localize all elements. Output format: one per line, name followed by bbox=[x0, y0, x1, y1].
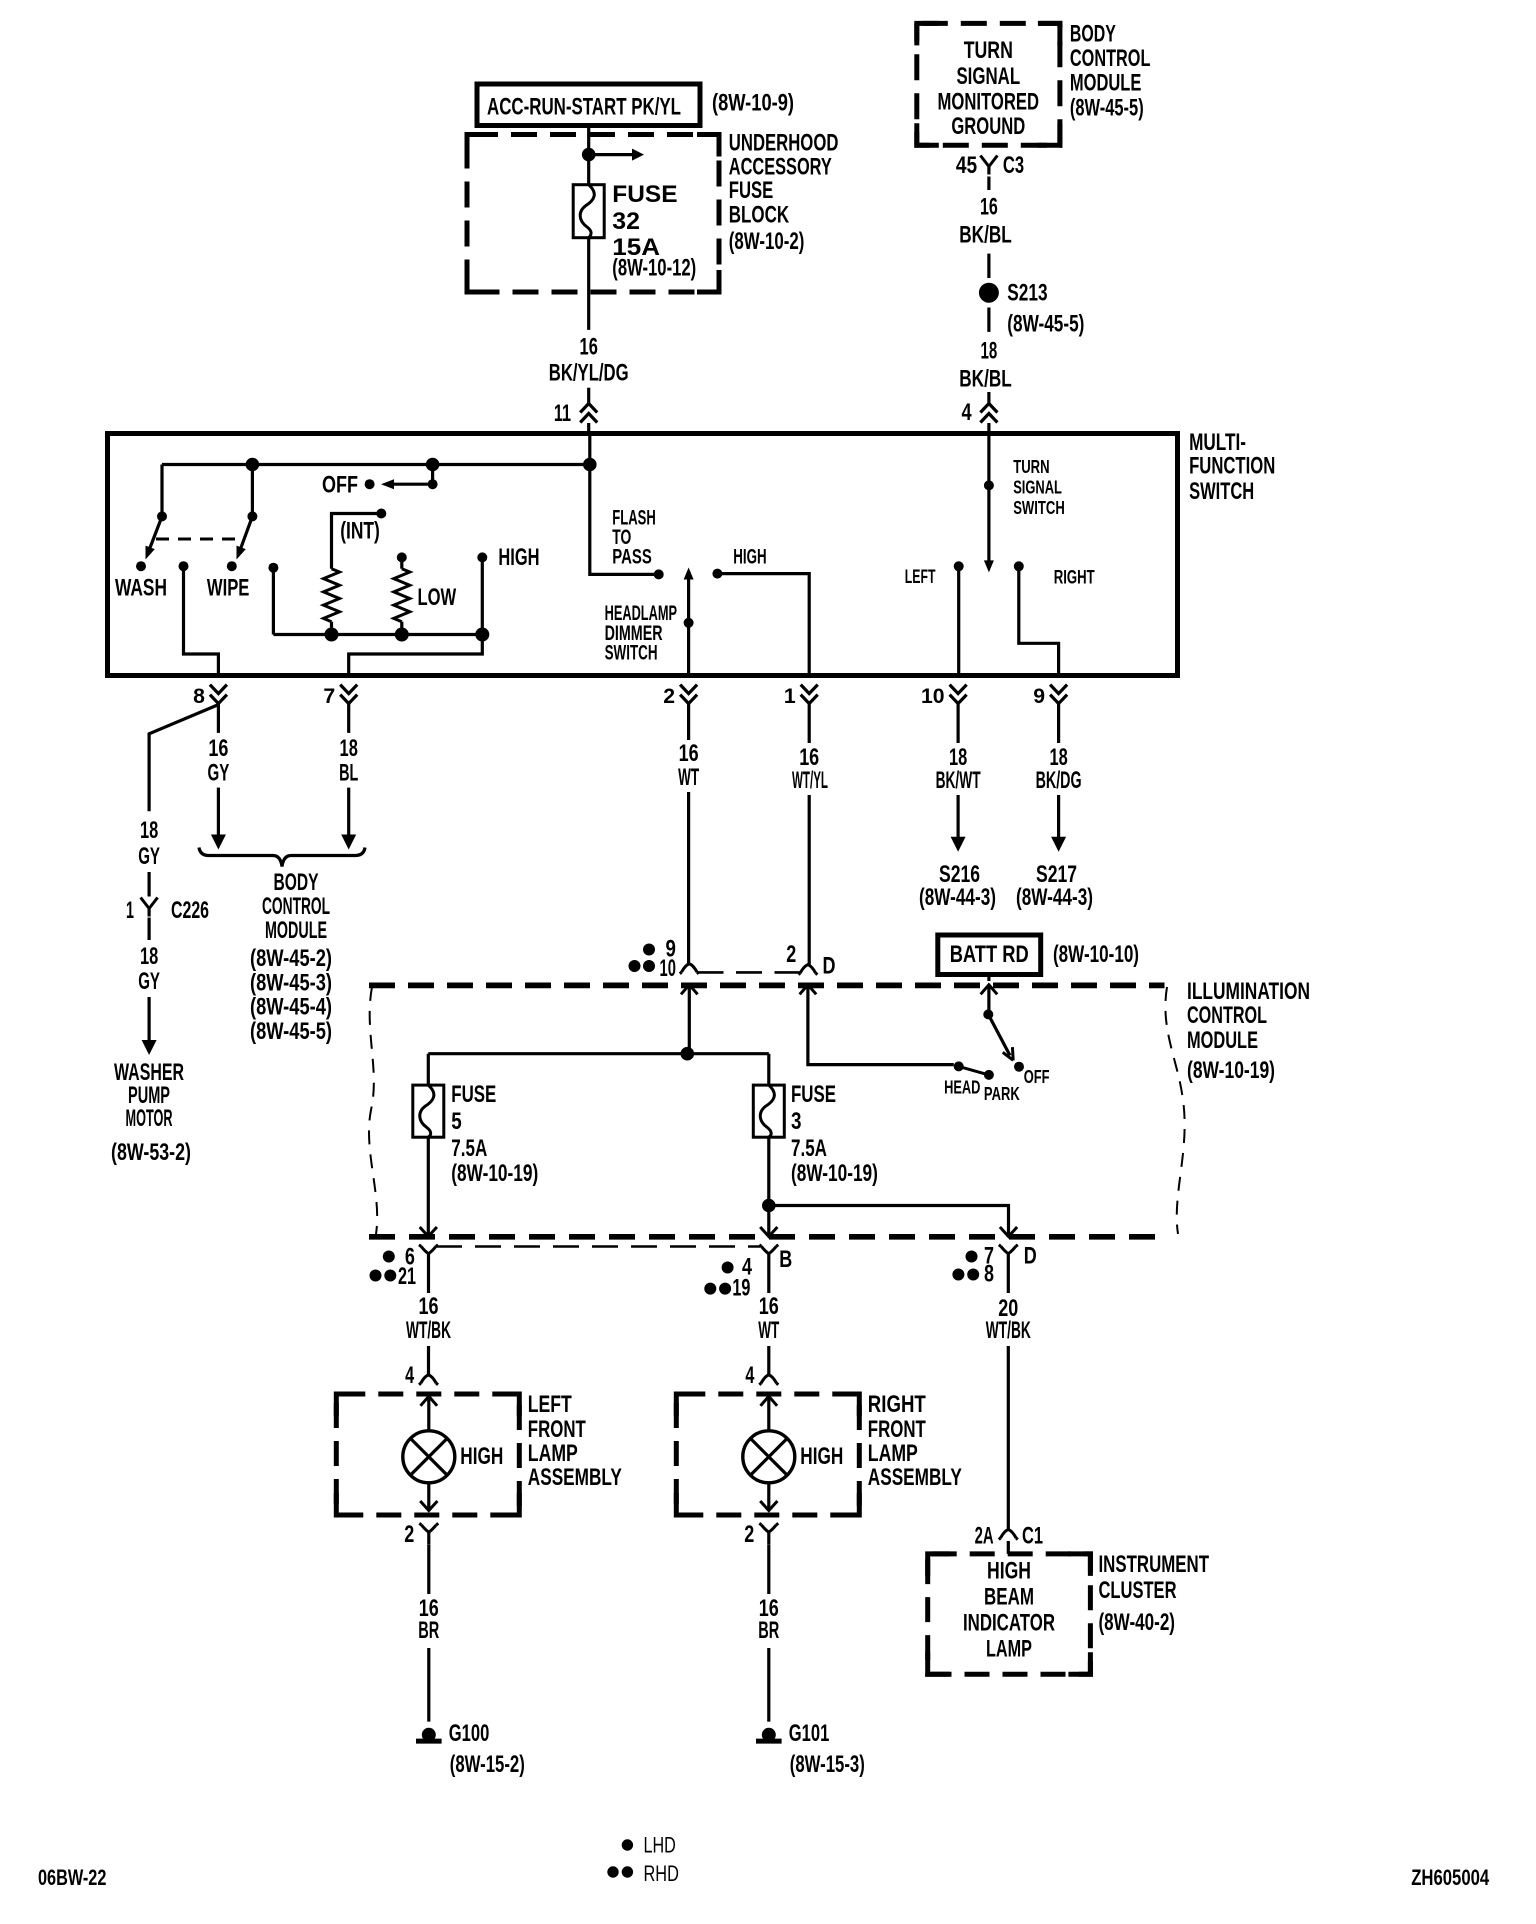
svg-text:11: 11 bbox=[554, 400, 571, 427]
svg-text:(8W-10-19): (8W-10-19) bbox=[451, 1160, 538, 1187]
svg-text:BK/WT: BK/WT bbox=[936, 767, 981, 794]
svg-text:RIGHT: RIGHT bbox=[1054, 567, 1095, 589]
svg-text:HIGH: HIGH bbox=[460, 1443, 503, 1470]
svg-text:D: D bbox=[1024, 1243, 1037, 1270]
svg-text:HIGH: HIGH bbox=[987, 1557, 1031, 1584]
svg-text:(8W-45-5): (8W-45-5) bbox=[250, 1018, 332, 1045]
svg-text:C1: C1 bbox=[1022, 1523, 1043, 1550]
svg-text:S213: S213 bbox=[1007, 280, 1047, 307]
svg-text:WASH: WASH bbox=[115, 575, 167, 602]
svg-text:(8W-45-5): (8W-45-5) bbox=[1007, 311, 1084, 338]
svg-text:2: 2 bbox=[404, 1521, 414, 1548]
svg-text:LOW: LOW bbox=[418, 584, 457, 611]
svg-text:OFF: OFF bbox=[322, 472, 358, 499]
svg-text:ASSEMBLY: ASSEMBLY bbox=[868, 1464, 962, 1491]
svg-text:CONTROL: CONTROL bbox=[262, 893, 330, 920]
svg-text:LAMP: LAMP bbox=[868, 1440, 918, 1467]
svg-text:21: 21 bbox=[398, 1263, 416, 1290]
svg-text:HEAD: HEAD bbox=[944, 1076, 980, 1097]
svg-text:FUNCTION: FUNCTION bbox=[1189, 453, 1275, 480]
svg-text:(8W-40-2): (8W-40-2) bbox=[1099, 1609, 1176, 1636]
svg-text:HIGH: HIGH bbox=[800, 1443, 843, 1470]
svg-text:2: 2 bbox=[663, 685, 675, 708]
svg-text:(8W-15-2): (8W-15-2) bbox=[450, 1751, 525, 1778]
svg-text:BODY: BODY bbox=[274, 869, 319, 896]
svg-text:RHD: RHD bbox=[644, 1861, 679, 1886]
svg-text:8: 8 bbox=[193, 685, 205, 708]
svg-text:GROUND: GROUND bbox=[951, 113, 1025, 140]
svg-text:BL: BL bbox=[339, 760, 358, 787]
svg-text:(8W-15-3): (8W-15-3) bbox=[790, 1751, 865, 1778]
svg-text:BODY: BODY bbox=[1070, 20, 1116, 47]
svg-text:C3: C3 bbox=[1003, 152, 1024, 179]
svg-text:WT: WT bbox=[678, 764, 699, 791]
svg-text:ASSEMBLY: ASSEMBLY bbox=[528, 1464, 622, 1491]
svg-text:7.5A: 7.5A bbox=[451, 1135, 487, 1162]
svg-text:GY: GY bbox=[208, 760, 230, 787]
svg-text:SWITCH: SWITCH bbox=[1013, 498, 1065, 519]
svg-text:BATT RD: BATT RD bbox=[950, 941, 1029, 968]
svg-text:16: 16 bbox=[980, 194, 998, 221]
svg-text:SWITCH: SWITCH bbox=[1189, 478, 1254, 505]
svg-text:LHD: LHD bbox=[644, 1833, 676, 1858]
svg-text:2: 2 bbox=[744, 1521, 754, 1548]
svg-text:WT/BK: WT/BK bbox=[986, 1317, 1031, 1344]
svg-text:(8W-44-3): (8W-44-3) bbox=[1016, 884, 1093, 911]
svg-text:WIPE: WIPE bbox=[207, 575, 250, 602]
svg-text:LAMP: LAMP bbox=[528, 1440, 578, 1467]
svg-text:HIGH: HIGH bbox=[733, 545, 766, 568]
svg-text:MONITORED: MONITORED bbox=[938, 89, 1040, 116]
svg-text:WT/YL: WT/YL bbox=[792, 767, 828, 794]
svg-text:(8W-45-4): (8W-45-4) bbox=[250, 994, 332, 1021]
svg-text:BEAM: BEAM bbox=[984, 1583, 1034, 1610]
svg-text:(8W-10-12): (8W-10-12) bbox=[612, 255, 696, 282]
svg-text:FRONT: FRONT bbox=[528, 1416, 586, 1443]
svg-text:9: 9 bbox=[1033, 685, 1045, 708]
svg-text:D: D bbox=[823, 952, 836, 979]
svg-text:RIGHT: RIGHT bbox=[868, 1391, 926, 1418]
svg-text:4: 4 bbox=[962, 399, 973, 426]
svg-text:(8W-10-9): (8W-10-9) bbox=[712, 90, 794, 117]
svg-text:OFF: OFF bbox=[1024, 1066, 1050, 1087]
svg-text:BK/YL/DG: BK/YL/DG bbox=[549, 359, 629, 386]
svg-text:UNDERHOOD: UNDERHOOD bbox=[729, 130, 839, 157]
svg-text:32: 32 bbox=[612, 208, 640, 235]
svg-text:MODULE: MODULE bbox=[1187, 1027, 1258, 1054]
svg-text:18: 18 bbox=[340, 735, 358, 762]
svg-text:BR: BR bbox=[758, 1617, 779, 1644]
svg-text:FUSE: FUSE bbox=[451, 1081, 496, 1108]
svg-text:FUSE: FUSE bbox=[729, 177, 774, 204]
svg-text:SWITCH: SWITCH bbox=[605, 642, 658, 665]
svg-text:LEFT: LEFT bbox=[905, 566, 936, 588]
svg-text:(8W-44-3): (8W-44-3) bbox=[919, 884, 996, 911]
svg-text:GY: GY bbox=[138, 968, 160, 995]
svg-text:18: 18 bbox=[140, 817, 158, 844]
svg-text:LAMP: LAMP bbox=[986, 1635, 1032, 1662]
svg-text:16: 16 bbox=[208, 735, 228, 762]
svg-text:18: 18 bbox=[140, 943, 158, 970]
svg-text:G101: G101 bbox=[789, 1720, 830, 1747]
svg-text:INDICATOR: INDICATOR bbox=[963, 1609, 1055, 1636]
svg-text:(8W-10-19): (8W-10-19) bbox=[1187, 1057, 1275, 1084]
svg-text:1: 1 bbox=[126, 897, 134, 924]
svg-text:8: 8 bbox=[984, 1261, 994, 1288]
svg-text:ACC-RUN-START PK/YL: ACC-RUN-START PK/YL bbox=[487, 94, 681, 121]
svg-text:4: 4 bbox=[405, 1362, 415, 1389]
svg-text:TURN: TURN bbox=[964, 37, 1013, 64]
svg-text:(8W-45-3): (8W-45-3) bbox=[250, 969, 332, 996]
svg-text:2: 2 bbox=[786, 941, 796, 968]
svg-text:SIGNAL: SIGNAL bbox=[956, 63, 1020, 90]
svg-text:MODULE: MODULE bbox=[1070, 70, 1142, 97]
svg-text:(8W-45-5): (8W-45-5) bbox=[1070, 95, 1144, 122]
svg-text:(8W-10-19): (8W-10-19) bbox=[791, 1160, 878, 1187]
svg-text:16: 16 bbox=[419, 1293, 439, 1320]
svg-text:LEFT: LEFT bbox=[528, 1391, 572, 1418]
svg-text:CLUSTER: CLUSTER bbox=[1099, 1577, 1177, 1604]
svg-text:(INT): (INT) bbox=[340, 518, 380, 545]
svg-text:5: 5 bbox=[451, 1108, 462, 1135]
svg-text:FRONT: FRONT bbox=[868, 1416, 926, 1443]
svg-text:7: 7 bbox=[323, 685, 335, 708]
svg-text:16: 16 bbox=[580, 333, 598, 360]
svg-text:BK/BL: BK/BL bbox=[959, 366, 1012, 393]
svg-text:CONTROL: CONTROL bbox=[1070, 45, 1151, 72]
svg-text:CONTROL: CONTROL bbox=[1187, 1002, 1267, 1029]
svg-text:PASS: PASS bbox=[612, 545, 652, 568]
svg-text:1: 1 bbox=[784, 685, 796, 708]
svg-text:C226: C226 bbox=[171, 897, 209, 924]
svg-text:WT/BK: WT/BK bbox=[406, 1317, 451, 1344]
svg-text:TURN: TURN bbox=[1013, 457, 1049, 478]
svg-text:MOTOR: MOTOR bbox=[126, 1105, 173, 1132]
svg-text:45: 45 bbox=[956, 152, 977, 179]
svg-text:ILLUMINATION: ILLUMINATION bbox=[1187, 978, 1310, 1005]
svg-text:10: 10 bbox=[660, 955, 676, 982]
svg-text:7.5A: 7.5A bbox=[791, 1135, 827, 1162]
svg-text:PARK: PARK bbox=[984, 1083, 1020, 1104]
svg-text:06BW-22: 06BW-22 bbox=[38, 1865, 106, 1890]
svg-text:2A: 2A bbox=[975, 1523, 994, 1550]
svg-text:GY: GY bbox=[138, 843, 160, 870]
svg-text:16: 16 bbox=[679, 740, 699, 767]
svg-text:(8W-10-10): (8W-10-10) bbox=[1053, 941, 1139, 968]
svg-text:B: B bbox=[779, 1246, 792, 1273]
svg-text:3: 3 bbox=[791, 1108, 802, 1135]
svg-text:MODULE: MODULE bbox=[265, 917, 327, 944]
svg-text:(8W-45-2): (8W-45-2) bbox=[250, 945, 332, 972]
svg-text:FUSE: FUSE bbox=[791, 1081, 836, 1108]
svg-text:BK/BL: BK/BL bbox=[959, 221, 1012, 248]
svg-text:INSTRUMENT: INSTRUMENT bbox=[1099, 1551, 1210, 1578]
svg-text:BK/DG: BK/DG bbox=[1036, 767, 1082, 794]
svg-text:10: 10 bbox=[921, 685, 945, 708]
svg-text:FUSE: FUSE bbox=[612, 181, 677, 208]
svg-text:16: 16 bbox=[759, 1293, 779, 1320]
svg-text:4: 4 bbox=[745, 1362, 755, 1389]
svg-text:HIGH: HIGH bbox=[498, 544, 539, 571]
svg-text:(8W-53-2): (8W-53-2) bbox=[111, 1139, 191, 1166]
svg-text:WT: WT bbox=[758, 1317, 779, 1344]
svg-text:BLOCK: BLOCK bbox=[729, 202, 789, 229]
svg-text:19: 19 bbox=[732, 1275, 750, 1302]
svg-text:SIGNAL: SIGNAL bbox=[1013, 477, 1062, 498]
svg-text:18: 18 bbox=[981, 338, 998, 365]
svg-text:ZH605004: ZH605004 bbox=[1411, 1865, 1489, 1890]
svg-text:BR: BR bbox=[418, 1617, 439, 1644]
svg-text:G100: G100 bbox=[449, 1720, 490, 1747]
svg-text:(8W-10-2): (8W-10-2) bbox=[729, 228, 805, 255]
